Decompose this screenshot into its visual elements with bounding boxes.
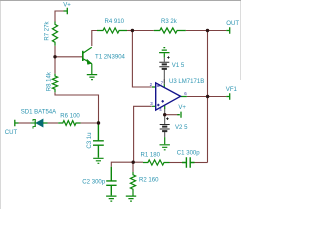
svg-text:V1 5: V1 5 — [172, 63, 185, 69]
op-amp U3 LM7171B — [152, 79, 187, 115]
plus mark V2 — [166, 117, 169, 120]
junction node supply V+ — [163, 113, 166, 116]
svg-text:R4 910: R4 910 — [105, 19, 125, 25]
svg-text:R8 14k: R8 14k — [46, 71, 52, 91]
wire R4 right to junction — [127, 30, 132, 32]
svg-text:CUT: CUT — [5, 130, 18, 136]
wire R7 bottom to base junction — [54, 46, 56, 57]
svg-text:OUT: OUT — [226, 21, 239, 27]
junction node A — [97, 121, 100, 124]
svg-text:C3 1u: C3 1u — [87, 132, 93, 148]
junction node feedback — [132, 161, 135, 164]
sheet border left — [0, 1, 2, 209]
svg-text:R6 100: R6 100 — [60, 113, 80, 119]
terminal VF1 — [226, 93, 229, 99]
wire R3 right to OUT junction — [186, 30, 208, 32]
battery V2 — [160, 115, 170, 145]
ground above V1 (flipped) — [159, 48, 169, 53]
junction node VF1 — [206, 95, 209, 98]
svg-text:V+: V+ — [63, 2, 71, 8]
ground at T1 emitter — [87, 75, 97, 80]
svg-text:V2 5: V2 5 — [175, 125, 188, 131]
battery V1 — [159, 53, 169, 83]
terminal V+ top — [64, 8, 68, 14]
wire diode to R6 — [48, 122, 59, 124]
diode SD1 BAT54A — [31, 119, 48, 129]
wire R6 to node A — [81, 122, 99, 124]
resistor R8 — [52, 74, 57, 93]
junction node base — [53, 55, 56, 58]
svg-text:V+: V+ — [178, 105, 186, 111]
capacitor C3 — [93, 121, 104, 158]
terminal CUT — [15, 120, 19, 126]
ground below V2 — [160, 145, 170, 150]
ground below C3 — [93, 158, 103, 163]
wire pin3 to bottom node — [134, 106, 152, 162]
svg-text:R7 27k: R7 27k — [44, 20, 50, 40]
plus mark V1 — [167, 56, 170, 59]
wire op-amp supply node to V+ terminal — [165, 114, 178, 116]
wire node to C2 — [111, 162, 133, 167]
svg-text:C2 300p: C2 300p — [82, 179, 105, 185]
wire op-amp output to junction — [187, 96, 208, 98]
wire R8 bottom to node A — [55, 92, 99, 121]
wire V+ top to R7 — [55, 11, 64, 22]
wire OUT stub — [208, 30, 227, 32]
resistor R2 — [130, 172, 135, 196]
svg-text:R2 160: R2 160 — [139, 178, 159, 184]
wire VF1 stub — [208, 96, 227, 98]
capacitor C2 — [106, 167, 116, 196]
resistor R4 — [97, 28, 127, 33]
wire junction to R8 top — [54, 57, 56, 74]
capacitor C1 — [182, 157, 195, 167]
terminal OUT — [226, 27, 229, 33]
svg-text:SD1 BAT54A: SD1 BAT54A — [21, 110, 57, 116]
wire C1 right to feedback vertical — [195, 162, 208, 164]
wire collector to R4 — [92, 31, 97, 47]
junction node R4/R3/pin2 — [131, 29, 134, 32]
wire R1 to C1 — [170, 162, 183, 164]
ground below C2 — [106, 196, 116, 201]
sheet border right — [240, 1, 242, 80]
ground below R2 — [126, 196, 136, 201]
sheet border top — [0, 0, 241, 2]
wire node to R2 — [132, 162, 134, 172]
resistor R3 — [154, 28, 186, 33]
junction node OUT — [206, 29, 209, 32]
terminal V+ mid stub — [177, 112, 181, 118]
wire CUT to diode — [19, 122, 31, 124]
svg-text:T1 2N3904: T1 2N3904 — [95, 54, 126, 60]
svg-text:VF1: VF1 — [226, 87, 238, 93]
wire junction to R3 left — [132, 30, 153, 32]
wire junction to pin2 — [132, 31, 151, 88]
wire node to R1 — [134, 161, 143, 163]
wire base of T1 — [55, 56, 82, 58]
svg-text:R1 180: R1 180 — [141, 153, 161, 159]
transistor T1 2N3904 — [83, 47, 92, 74]
resistor R6 — [58, 121, 80, 126]
svg-text:C1 300p: C1 300p — [177, 150, 200, 156]
wire feedback vertical OUT to C1 row — [207, 31, 209, 163]
resistor R1 — [143, 160, 170, 165]
svg-text:R3 2k: R3 2k — [161, 19, 178, 25]
svg-text:U3 LM7171B: U3 LM7171B — [169, 79, 204, 85]
resistor R7 — [52, 22, 57, 46]
